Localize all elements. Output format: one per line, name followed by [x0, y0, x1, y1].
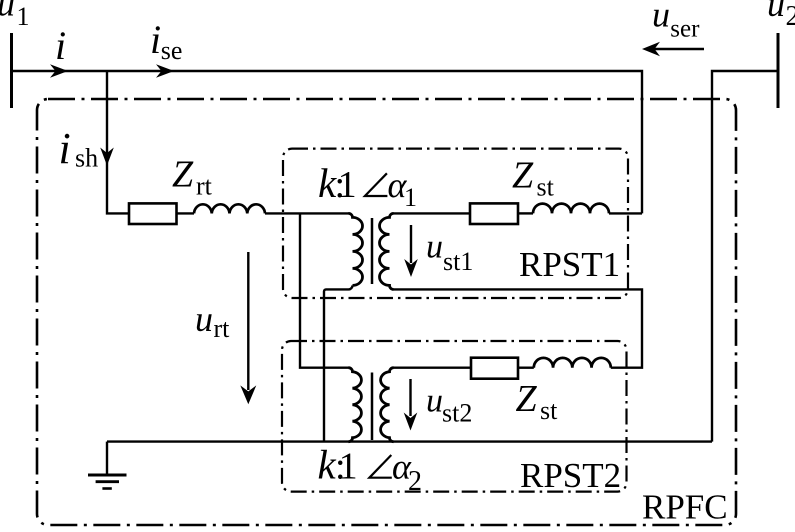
- svg-text:2: 2: [408, 466, 422, 497]
- wire Zst2 inductor to resistor: [518, 367, 534, 369]
- svg-text:u: u: [426, 383, 443, 420]
- svg-text:rt: rt: [214, 314, 231, 343]
- box RPST1 dash-dot: [283, 149, 628, 298]
- arrowhead u_ser: [642, 42, 660, 56]
- label Z_st2: [516, 378, 559, 425]
- wire node A junction down to T2 primary top: [300, 213, 349, 367]
- node u1 bus bar: [10, 33, 13, 108]
- svg-text:k: k: [318, 442, 337, 488]
- svg-text:u: u: [652, 0, 670, 35]
- transformer U2 primary winding: [349, 368, 362, 442]
- transformer U1 core: [371, 218, 374, 284]
- label Z_st1: [512, 155, 555, 202]
- svg-text:st: st: [537, 173, 555, 202]
- arrowhead u_rt: [240, 385, 256, 404]
- resistor Zrt box: [129, 203, 177, 224]
- transformer U1 primary winding: [349, 213, 363, 285]
- svg-text:ser: ser: [670, 15, 700, 42]
- label i_se: [150, 17, 182, 65]
- svg-text:u: u: [767, 0, 785, 24]
- svg-text:u: u: [426, 229, 443, 266]
- wire u_rt arrow line: [247, 252, 249, 390]
- svg-text:rt: rt: [196, 172, 213, 201]
- transformer U1 secondary winding: [380, 213, 394, 289]
- svg-text:Z: Z: [172, 154, 194, 196]
- svg-text:se: se: [161, 36, 183, 65]
- wire Zst1 inductor to right vertical: [609, 212, 642, 214]
- wire u_ser arrow line: [646, 48, 704, 50]
- wire top bus left segment down to Zst1: [12, 71, 643, 213]
- wire ish shunt branch: [107, 71, 129, 213]
- resistor Zst2 box: [471, 358, 518, 379]
- svg-text:RPST2: RPST2: [520, 456, 621, 495]
- label k:1 angle alpha2: [318, 442, 423, 497]
- svg-text:st1: st1: [443, 247, 473, 276]
- label u_rt: [195, 299, 230, 343]
- arrowhead i_se: [156, 64, 174, 78]
- wire T1 secondary bottom to Zst2: [394, 289, 643, 367]
- wire ground stem: [106, 442, 108, 475]
- label u2: [767, 0, 795, 32]
- arrowhead i_sh: [100, 148, 114, 166]
- box RPST2 dash-dot: [282, 341, 627, 492]
- wire ground bus horizontal: [107, 440, 712, 442]
- label i_sh: [59, 124, 99, 173]
- svg-text:RPFC: RPFC: [642, 487, 728, 526]
- wire Zst2 resistor to T2 secondary top: [394, 367, 472, 369]
- box RPFC dash-dot: [37, 99, 736, 525]
- label u_st1: [426, 229, 473, 277]
- svg-text:Z: Z: [516, 378, 538, 420]
- wire T1 secondary top to Zst1 resistor: [394, 212, 471, 214]
- wire Zst1 resistor to inductor: [518, 212, 533, 214]
- label u1: [0, 0, 30, 31]
- inductor Zst2 coil: [534, 358, 611, 368]
- svg-text:sh: sh: [75, 144, 98, 173]
- svg-text:i: i: [59, 124, 71, 173]
- label Z_rt: [172, 154, 213, 201]
- svg-text:st: st: [540, 396, 558, 425]
- svg-text:2: 2: [786, 1, 795, 32]
- svg-text:u: u: [0, 0, 15, 24]
- svg-text:st2: st2: [442, 398, 472, 427]
- label u_ser: [652, 0, 700, 42]
- svg-text:1: 1: [17, 2, 30, 31]
- svg-text:u: u: [195, 299, 213, 339]
- svg-text:Z: Z: [512, 155, 534, 197]
- wire u_st2 arrow line: [409, 379, 411, 416]
- wire top bus right segment down to ground wire: [712, 71, 778, 442]
- ground: [88, 474, 127, 477]
- wire Zrt to transformer T1 primary: [177, 212, 349, 214]
- svg-text:RPST1: RPST1: [519, 245, 620, 284]
- svg-text:1: 1: [339, 446, 358, 488]
- resistor Zst1 box: [470, 203, 518, 224]
- transformer U2 core: [371, 373, 374, 441]
- inductor Zrt coil: [194, 204, 265, 213]
- wire u_st1 arrow line: [410, 225, 412, 263]
- svg-text:i: i: [55, 23, 66, 68]
- arrowhead i: [50, 64, 68, 78]
- wire T1 primary bottom down to ground wire: [324, 285, 353, 441]
- node u2 bus bar: [777, 33, 780, 108]
- svg-text:1: 1: [338, 164, 357, 206]
- label k:1 angle alpha1: [318, 160, 417, 212]
- arrowhead u_st2: [404, 413, 418, 431]
- svg-text:1: 1: [404, 183, 417, 212]
- label u_st2: [426, 383, 472, 428]
- transformer U2 secondary winding: [381, 368, 394, 442]
- svg-text:i: i: [150, 17, 161, 62]
- inductor Zst1 coil: [533, 204, 609, 214]
- arrowhead u_st1: [404, 259, 418, 277]
